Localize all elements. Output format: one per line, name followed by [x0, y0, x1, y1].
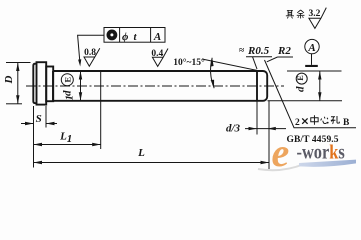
svg-text:2: 2	[295, 118, 300, 128]
svg-text:ϕ: ϕ	[122, 31, 129, 43]
svg-text:A: A	[307, 42, 315, 54]
svg-text:E: E	[62, 77, 72, 83]
dimension L	[34, 101, 270, 169]
glyph kong	[331, 116, 340, 124]
svg-text:1: 1	[67, 133, 73, 145]
svg-text:-works: -works	[297, 141, 345, 164]
svg-text:A: A	[153, 31, 161, 43]
svg-text:R0.5: R0.5	[247, 45, 270, 57]
angle arc 10-15 deg	[210, 58, 214, 88]
roughness 0.4	[151, 49, 168, 67]
tolerance frame	[104, 28, 165, 43]
svg-text:E: E	[296, 75, 305, 80]
qiyu 3.2 (rest roughness)	[286, 8, 326, 29]
R2 label	[267, 45, 293, 62]
svg-text:L: L	[137, 147, 145, 159]
roughness 0.8	[84, 48, 100, 66]
dimension d/3	[226, 101, 286, 135]
svg-text:B: B	[343, 118, 350, 128]
svg-text:R2: R2	[277, 45, 291, 57]
datum A	[305, 39, 319, 67]
glyph qi	[286, 10, 294, 18]
glyph yu	[297, 10, 305, 18]
svg-text:3.2: 3.2	[308, 9, 320, 19]
dimension d (right) with E circle	[294, 71, 321, 101]
chamfer slant construction line	[202, 59, 259, 71]
R0.5 label	[239, 45, 272, 69]
glyph zhong	[311, 115, 318, 125]
svg-text:e: e	[272, 130, 290, 174]
svg-text:1: 1	[64, 95, 76, 101]
head	[33, 62, 46, 104]
right side extension lines	[287, 70, 342, 72]
dimension L1	[34, 101, 101, 149]
collar	[46, 67, 53, 102]
tolerance frame leader	[78, 35, 104, 66]
centerline	[26, 85, 284, 87]
svg-text:10°~15°: 10°~15°	[173, 57, 205, 68]
dimension d1 with E circle	[61, 71, 82, 101]
svg-text:S: S	[36, 113, 42, 125]
center hole leader	[265, 60, 357, 128]
dimension S	[21, 106, 57, 168]
e-works watermark	[258, 130, 356, 175]
chamfer start line	[256, 71, 258, 101]
note: 2 x center hole B	[295, 115, 350, 128]
svg-text:D: D	[3, 75, 15, 84]
dimension D	[3, 63, 31, 104]
svg-text:d: d	[294, 86, 306, 92]
svg-text:d/3: d/3	[226, 122, 241, 134]
step line at L1 end	[100, 71, 102, 101]
svg-text:≈: ≈	[239, 46, 245, 56]
glyph xin	[321, 117, 329, 124]
shaft left edge	[52, 71, 54, 101]
shaft outline	[53, 71, 267, 101]
